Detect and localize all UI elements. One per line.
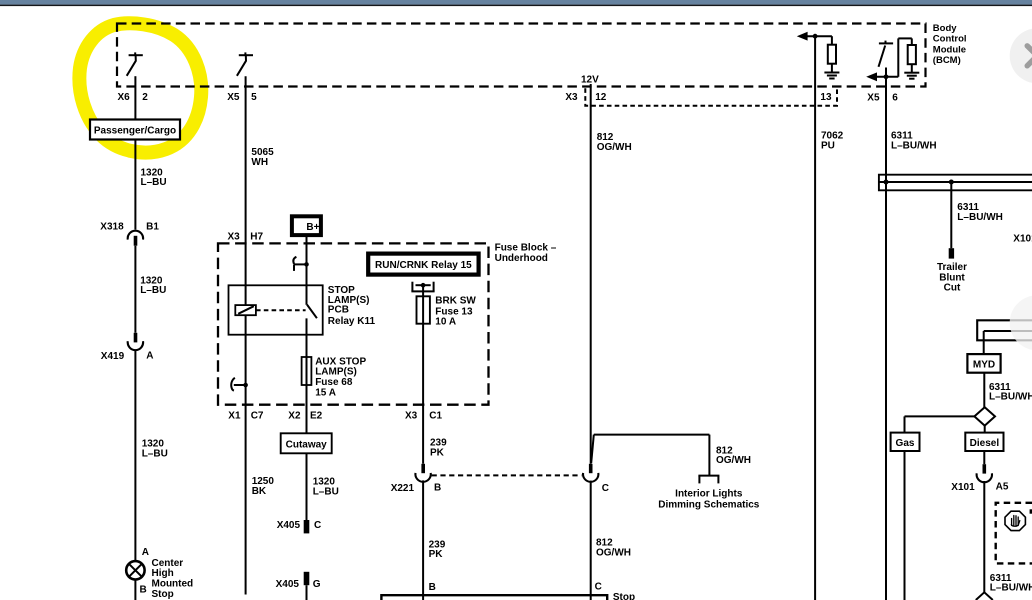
wire from relay 15 down through fuse 13	[422, 283, 424, 464]
svg-text:Module: Module	[933, 44, 966, 55]
svg-text:B: B	[434, 483, 441, 494]
connector X221 B (male pin and female cup)	[421, 464, 425, 473]
wire 1320 below Cutaway	[306, 453, 308, 520]
dashed wire from X221 to C connector	[432, 474, 582, 476]
svg-text:X5: X5	[867, 92, 880, 103]
wire 812 OG/WH lower segment	[590, 481, 592, 600]
svg-text:X405: X405	[276, 579, 300, 590]
junction node on X5-6 wire	[884, 74, 889, 79]
svg-text:X3: X3	[565, 92, 578, 103]
svg-text:RUN/CRNK Relay 15: RUN/CRNK Relay 15	[375, 260, 472, 271]
fuse block underhood dashed box	[218, 243, 489, 404]
svg-text:X3: X3	[405, 410, 418, 421]
relay coil	[235, 305, 256, 315]
svg-text:Stop: Stop	[152, 589, 174, 600]
relay contact blade	[307, 305, 317, 319]
caution hand octagon icon	[1005, 511, 1025, 530]
svg-text:X101: X101	[1013, 234, 1032, 245]
svg-text:Dimming Schematics: Dimming Schematics	[658, 500, 760, 511]
splice bus bar lower right	[977, 320, 1032, 340]
ground symbol 1	[824, 73, 839, 79]
BCM internal: arrow driver for X5-6	[866, 72, 877, 81]
partial glyph at right edge of caution box	[1030, 509, 1032, 513]
svg-text:5: 5	[251, 92, 257, 103]
svg-text:(BCM): (BCM)	[933, 55, 961, 66]
wire diamond to Diesel	[984, 426, 986, 433]
svg-text:WH: WH	[251, 157, 268, 168]
wire 812 OG/WH from 12V down	[590, 84, 592, 464]
relay 15 socket bracket	[411, 282, 434, 292]
svg-text:B: B	[140, 584, 147, 595]
lamp: Center High Mounted Stop	[126, 561, 144, 579]
Gas label box	[891, 433, 920, 451]
svg-text:Interior Lights: Interior Lights	[675, 489, 743, 500]
clip terminal on X1 wire	[231, 378, 245, 391]
switch S2 (BCM output X5-5)	[237, 52, 253, 75]
wire 1320 L-BU segment to X318	[134, 140, 136, 230]
wire from relay contact to AUX fuse	[306, 318, 308, 453]
MYD label box	[967, 354, 1000, 373]
svg-text:BRK SW: BRK SW	[435, 296, 476, 307]
faded floating button circle	[1010, 295, 1032, 350]
svg-text:X419: X419	[101, 351, 125, 362]
svg-text:X3: X3	[228, 232, 241, 243]
svg-text:X2: X2	[288, 410, 301, 421]
svg-text:STOP: STOP	[328, 285, 355, 296]
top browser bar	[0, 0, 1032, 5]
clip terminal below B+	[293, 257, 306, 271]
svg-text:Passenger/Cargo: Passenger/Cargo	[94, 126, 176, 137]
connector X419 A (male pin above, female cup below)	[134, 333, 138, 343]
svg-text:Underhood: Underhood	[495, 253, 548, 264]
svg-text:X6: X6	[118, 92, 131, 103]
splice diamond	[974, 407, 995, 425]
svg-text:OG/WH: OG/WH	[596, 548, 631, 559]
BCM internal: link to pull resistor 2	[897, 38, 899, 76]
svg-text:G: G	[313, 579, 321, 590]
Cutaway label box	[281, 433, 332, 453]
svg-text:AUX STOP: AUX STOP	[315, 356, 366, 367]
svg-text:Diesel: Diesel	[970, 438, 1000, 449]
wire 1320 L-BU segment to X419	[134, 246, 136, 333]
wire below X405 G	[306, 585, 308, 600]
svg-text:L–BU/WH: L–BU/WH	[989, 392, 1032, 403]
svg-text:OG/WH: OG/WH	[716, 455, 751, 466]
svg-text:10 A: 10 A	[435, 317, 456, 328]
BCM dashed module box	[117, 24, 926, 87]
svg-text:B: B	[429, 582, 436, 593]
svg-text:L–BU/WH: L–BU/WH	[891, 140, 937, 151]
svg-text:Control: Control	[933, 34, 967, 45]
svg-text:PCB: PCB	[328, 305, 349, 316]
svg-text:MYD: MYD	[973, 359, 995, 370]
BCM internal: arrow driver for pin 13	[797, 32, 808, 41]
svg-text:Cutaway: Cutaway	[286, 440, 328, 451]
trailer branch wire 6311 L-BU/WH	[950, 182, 952, 248]
svg-text:X1: X1	[228, 410, 241, 421]
close button X icon	[1027, 46, 1032, 66]
splice bus bar S110	[879, 175, 1032, 191]
svg-text:PK: PK	[430, 448, 445, 459]
fuse AUX STOP LAMP(S) 68	[302, 357, 312, 385]
svg-text:L–BU: L–BU	[313, 487, 339, 498]
svg-text:E2: E2	[310, 410, 323, 421]
svg-text:Relay K11: Relay K11	[328, 316, 376, 327]
relay K11 outline box	[229, 285, 323, 334]
svg-text:L–BU/WH: L–BU/WH	[990, 583, 1032, 594]
svg-text:LAMP(S): LAMP(S)	[315, 367, 357, 378]
trailer blunt cut end	[949, 248, 954, 258]
svg-text:C: C	[595, 581, 602, 592]
relay actuation dashed link	[256, 309, 306, 311]
connector C on 812 wire (male pin and female cup)	[589, 464, 593, 473]
svg-text:H7: H7	[250, 232, 263, 243]
svg-text:X5: X5	[227, 92, 240, 103]
dashed caution box	[996, 503, 1032, 564]
branch wire to interior lights dimming	[591, 435, 709, 476]
connector X101 A5 (male pin and female cup)	[983, 451, 985, 464]
svg-text:L–BU: L–BU	[142, 449, 168, 460]
svg-text:A: A	[142, 547, 149, 558]
svg-text:6: 6	[892, 92, 898, 103]
wire 6311 L-BU/WH pin 6	[885, 68, 887, 600]
svg-text:L–BU/WH: L–BU/WH	[957, 212, 1003, 223]
wire below lamp	[134, 580, 136, 600]
svg-text:L–BU: L–BU	[141, 177, 167, 188]
wire 1320 L-BU segment to lamp	[134, 350, 136, 562]
BCM internal: pull resistor 2	[908, 45, 916, 64]
wire from switch S1 to Passenger/Cargo label	[134, 76, 136, 119]
junction node bus-trailer branch	[949, 180, 954, 185]
svg-text:X405: X405	[277, 520, 301, 531]
Passenger/Cargo label box	[90, 120, 180, 140]
svg-text:PK: PK	[429, 549, 444, 560]
svg-text:Body: Body	[933, 23, 957, 34]
ground symbol 2	[904, 73, 919, 79]
svg-text:BK: BK	[252, 486, 267, 497]
junction node bus-wire 6311	[884, 180, 889, 185]
svg-text:2: 2	[142, 92, 148, 103]
branch wire to Gas	[905, 415, 975, 417]
Diesel label box	[965, 433, 1003, 451]
svg-text:X101: X101	[951, 482, 975, 493]
svg-text:OG/WH: OG/WH	[597, 142, 632, 153]
svg-text:A: A	[146, 351, 153, 362]
svg-text:Gas: Gas	[896, 438, 915, 449]
stop lamp switch box top	[381, 595, 607, 600]
svg-text:C1: C1	[429, 410, 442, 421]
svg-text:12: 12	[595, 92, 607, 103]
svg-text:C: C	[314, 520, 321, 531]
svg-text:12V: 12V	[581, 74, 599, 85]
RUN/CRNK Relay 15 label box	[368, 254, 478, 275]
svg-text:Fuse 68: Fuse 68	[315, 377, 353, 388]
wire below Gas	[904, 451, 906, 600]
splice diamond bottom edge	[976, 592, 993, 600]
yellow highlight ring annotation	[79, 23, 201, 152]
connector X318 B1 (female half opening down, male pin below)	[128, 231, 143, 240]
svg-text:C7: C7	[251, 410, 264, 421]
wire 7062 PU pin 13	[814, 36, 816, 600]
switch S1 (BCM output X6-2)	[127, 52, 143, 75]
svg-text:X318: X318	[100, 222, 124, 233]
off-page bracket to interior lights	[698, 476, 719, 484]
svg-text:Cut: Cut	[944, 283, 961, 294]
inline connector X405 C (male end)	[304, 520, 310, 533]
inline connector X405 G (male end)	[304, 572, 310, 585]
svg-text:B+: B+	[306, 222, 319, 233]
close button circle	[1010, 28, 1032, 83]
svg-text:B1: B1	[146, 222, 159, 233]
svg-text:X221: X221	[391, 483, 415, 494]
wire 6311 from MYD to splice diamond	[983, 373, 985, 408]
svg-text:PU: PU	[821, 140, 835, 151]
fuse BRK SW 13	[417, 296, 430, 323]
svg-text:Stop: Stop	[613, 592, 635, 600]
wire from B+ down through relay	[306, 236, 308, 305]
hand glyph	[1011, 516, 1019, 527]
junction node on pin 13 wire	[813, 34, 818, 39]
svg-text:L–BU: L–BU	[140, 285, 166, 296]
wire from bus to MYD	[983, 331, 985, 354]
svg-text:C: C	[602, 483, 609, 494]
switch S3 (BCM internal X5-6)	[879, 41, 894, 67]
svg-text:Fuse Block –: Fuse Block –	[495, 242, 557, 253]
BCM internal: pull resistor 1	[828, 45, 836, 64]
wire 5065 WH from S2 down into fuse block	[245, 76, 247, 594]
wire 6311 below X101	[983, 481, 985, 593]
svg-text:15 A: 15 A	[315, 388, 336, 399]
B+ label box	[292, 216, 321, 235]
dashed connector-group outline X3/12-13	[585, 88, 837, 105]
svg-text:A5: A5	[996, 482, 1009, 493]
svg-text:13: 13	[820, 92, 832, 103]
